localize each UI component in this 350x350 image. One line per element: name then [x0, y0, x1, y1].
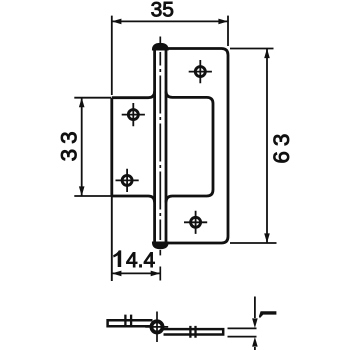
dim 1 extension line bottom	[228, 336, 257, 338]
dim 33 extension line bottom	[74, 195, 111, 197]
dim 1 dimension line upper	[254, 297, 256, 319]
small leaf right flag (rounded rectangle over large leaf)	[166, 91, 213, 202]
bottom view: large leaf bar (lower right)	[163, 329, 223, 334]
pin centerline above top cap	[159, 37, 161, 45]
small leaf left flange (left plate, 33 tall)	[112, 91, 155, 202]
bottom view: small leaf bar (upper left)	[108, 320, 153, 326]
dim 33 text (rotated)	[56, 126, 81, 161]
dim 63 dimension line	[266, 49, 268, 244]
dim 35 dimension line	[112, 20, 228, 22]
dim 63 text (rotated)	[269, 129, 294, 164]
dim 33 arrow bottom	[79, 186, 85, 196]
dim 14.4 dimension line	[112, 272, 161, 274]
dim 1 extension line top	[228, 327, 257, 329]
screw hole A (top right)	[189, 60, 212, 83]
svg-text:35: 35	[151, 0, 174, 21]
bottom view: hole ticks on large leaf	[190, 326, 195, 338]
dim 35 extension line right	[227, 16, 229, 46]
barrel top cap	[153, 44, 168, 50]
dim 14.4 arrow left	[112, 271, 122, 277]
dim 35 arrow left	[112, 19, 122, 25]
dim 1 text (rotated)	[259, 311, 277, 318]
screw hole D (bottom right)	[184, 211, 207, 234]
screw hole C (small leaf lower)	[116, 169, 139, 192]
dim 1 arrow upper (pointing down)	[252, 318, 258, 328]
dim 14.4 arrow right	[151, 271, 161, 277]
screw hole B (small leaf upper)	[122, 103, 145, 126]
large leaf outline (right plate 35x63)	[166, 49, 228, 244]
dim 35 extension line left	[111, 16, 113, 95]
dim 14.4 text	[113, 249, 155, 272]
dim 33 arrow top	[79, 98, 85, 108]
svg-text:63: 63	[269, 129, 294, 164]
bottom view: hole ticks on small leaf	[125, 315, 131, 328]
dim 63 arrow top	[264, 49, 270, 59]
barrel (knuckle) side lines	[155, 48, 166, 244]
bottom view: barrel crosshair	[145, 312, 168, 343]
dim 1 arrow lower (pointing up)	[252, 337, 258, 347]
dim 33 extension line top	[74, 97, 111, 99]
dim 35 text	[151, 0, 174, 21]
dim 63 extension line top	[230, 48, 274, 50]
barrel bottom cap	[153, 242, 168, 248]
dim 63 arrow bottom	[264, 233, 270, 243]
pin centerline dash below bottom cap	[159, 250, 161, 256]
bottom view: barrel circle	[151, 321, 162, 332]
dim 1 dimension line lower	[254, 347, 256, 350]
dim 63 extension line bottom	[230, 242, 277, 244]
svg-text:4.4: 4.4	[126, 249, 156, 272]
dim 35 arrow right	[218, 19, 228, 25]
svg-text:33: 33	[56, 126, 81, 161]
pin centerline (dash-dot) inside barrel	[159, 52, 161, 240]
dim 14.4 extension line left (continuation of leaf edge)	[111, 196, 113, 281]
dim 14.4 extension line right (pin centerline)	[159, 267, 161, 281]
dim 33 dimension line	[81, 98, 83, 196]
